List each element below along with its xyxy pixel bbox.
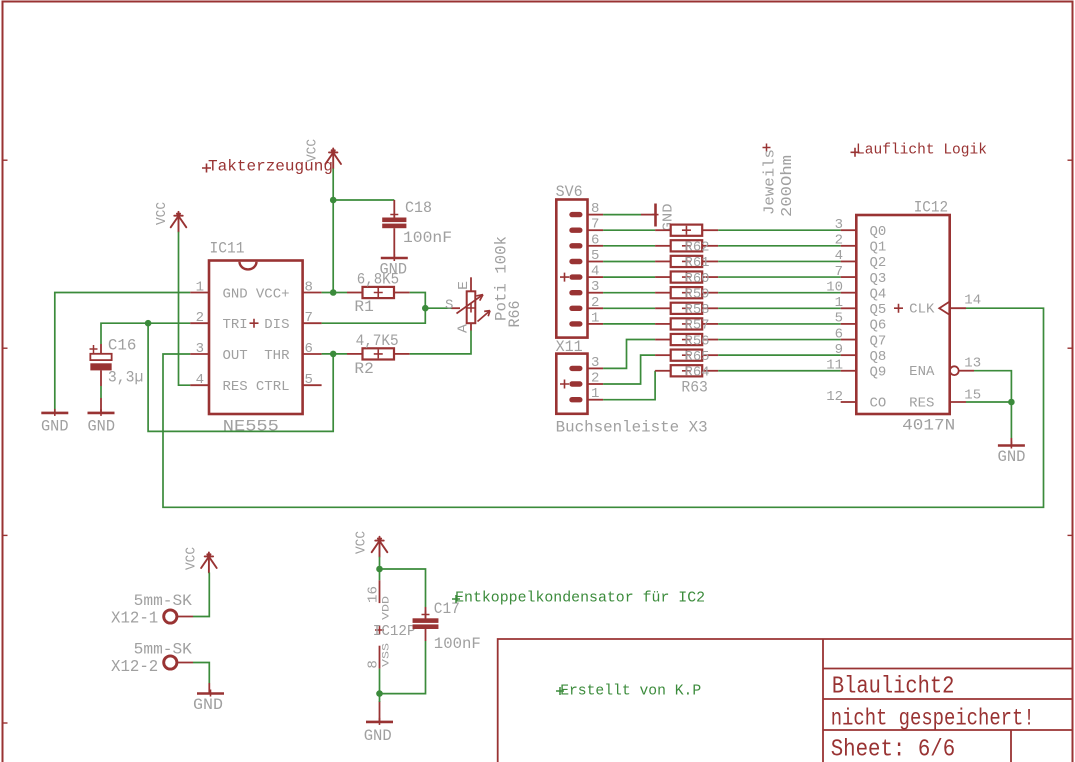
IC12 pin 10 Q4: [841, 292, 857, 294]
IC12 body: [856, 215, 949, 414]
label Jeweils 200Ohm: [763, 144, 797, 218]
IC12 pin 1 Q5: [841, 307, 857, 309]
svg-text:R58: R58: [685, 302, 710, 318]
IC12 pin 9 Q8: [841, 354, 857, 356]
SV6 pin 5: [569, 259, 582, 264]
svg-text:R60: R60: [685, 271, 710, 287]
wire SV6 pin 3 to resistor: [603, 292, 655, 294]
IC12 pin 4 Q2: [841, 260, 857, 262]
poti pin E: [470, 277, 472, 291]
svg-text:1: 1: [591, 310, 599, 326]
svg-text:Q5: Q5: [870, 302, 887, 318]
svg-text:R61: R61: [685, 255, 710, 271]
svg-text:TRI: TRI: [223, 317, 248, 333]
IC11 pin 8 VCC+: [303, 292, 322, 294]
wire ENA to RES node: [974, 371, 1011, 402]
svg-text:R56: R56: [685, 333, 710, 349]
wire X11 pin2 to resistor R65 row: [603, 355, 655, 384]
wire VCC to IC12P: [379, 557, 381, 581]
resistor R59 200 Ohm: [655, 286, 718, 302]
resistor R1 6,8K5: [347, 270, 410, 316]
svg-text:4: 4: [196, 372, 204, 388]
svg-text:THR: THR: [264, 348, 290, 364]
IC11 pin 1 GND: [190, 292, 209, 294]
wire resistor row to IC12 Q0: [718, 229, 841, 231]
svg-text:6: 6: [835, 326, 843, 342]
svg-text:IC12: IC12: [914, 199, 949, 217]
svg-text:8: 8: [305, 279, 313, 295]
svg-text:10: 10: [826, 279, 843, 295]
LED hole X12-1 5mm-SK: [111, 592, 193, 628]
poti pin A: [470, 323, 472, 330]
resistor R60 200 Ohm: [655, 271, 718, 287]
resistor R63 200 Ohm: [655, 225, 718, 236]
svg-text:2: 2: [835, 233, 843, 249]
svg-text:DIS: DIS: [264, 317, 289, 333]
ground symbol GND rotated at SV6 pin8: [641, 203, 677, 231]
svg-text:4017N: 4017N: [902, 417, 955, 435]
IC12P origin cross: [375, 626, 384, 635]
svg-text:VCC: VCC: [355, 531, 370, 554]
X11 pin 1: [569, 397, 582, 402]
LED hole X12-2 5mm-SK: [111, 641, 193, 677]
svg-text:Q9: Q9: [870, 365, 887, 381]
wire R2 to poti A: [410, 331, 471, 354]
svg-text:1: 1: [196, 279, 204, 295]
IC12 pin 6 Q7: [841, 339, 857, 341]
svg-text:GND: GND: [998, 448, 1026, 466]
wire SV6 pin 7 to resistor: [603, 229, 655, 231]
svg-text:14: 14: [964, 293, 981, 309]
IC12 pin 3 Q0: [841, 229, 857, 231]
svg-text:X11: X11: [556, 338, 583, 356]
SV6 pin 8: [569, 212, 582, 217]
wire X12-1 to VCC: [193, 573, 209, 617]
svg-text:16: 16: [367, 586, 382, 603]
note text Entkoppelkondensator: [452, 590, 705, 607]
svg-text:R59: R59: [685, 286, 710, 302]
wire IC12P VSS to GND: [379, 669, 381, 694]
junction at IC12P VDD: [376, 566, 383, 573]
svg-text:GND: GND: [88, 418, 116, 436]
svg-text:GND: GND: [41, 418, 69, 436]
resistor R65 200 Ohm: [655, 349, 718, 365]
IC11 pin 6 THR: [303, 353, 322, 355]
X11 pin 2: [569, 381, 582, 386]
svg-text:R66: R66: [506, 301, 524, 328]
svg-text:Lauflicht Logik: Lauflicht Logik: [856, 143, 987, 159]
VCC symbol at IC12P: [355, 531, 388, 557]
svg-text:VCC: VCC: [306, 139, 321, 162]
IC11 pin 2 TRI: [190, 322, 209, 324]
svg-text:1: 1: [835, 295, 843, 311]
svg-text:13: 13: [964, 356, 981, 372]
svg-text:Q4: Q4: [870, 286, 887, 302]
wire R1 to wiper node: [410, 293, 426, 309]
ground symbol GND at C16: [88, 409, 116, 436]
wire pin6 to R2: [322, 353, 347, 355]
svg-text:8: 8: [367, 660, 382, 669]
svg-text:Q8: Q8: [870, 349, 887, 365]
IC12 pin 12 CO: [841, 401, 857, 403]
svg-text:E: E: [457, 281, 472, 290]
IC11 origin cross: [250, 319, 259, 328]
svg-text:S: S: [445, 298, 453, 314]
svg-text:GND: GND: [193, 696, 223, 714]
svg-text:CTRL: CTRL: [256, 379, 290, 395]
connector X11 pin header: [556, 338, 604, 414]
SV6 pin 6: [569, 243, 582, 248]
svg-text:R63: R63: [681, 379, 708, 397]
wire resistor row to IC12 Q8: [718, 354, 841, 356]
svg-text:nicht gespeichert!: nicht gespeichert!: [831, 706, 1035, 732]
VCC symbol above IC11: [155, 202, 186, 232]
wire VCC down to IC11 pin8: [322, 169, 334, 293]
svg-text:NE555: NE555: [223, 418, 279, 436]
frame row tick marks: [2, 160, 1073, 723]
svg-text:3: 3: [591, 355, 599, 371]
svg-text:2: 2: [196, 310, 204, 326]
wire IC11 pin3 OUT to IC12 CLK: [163, 308, 1044, 507]
capacitor C16 3,3u electrolytic: [90, 336, 144, 413]
capacitor C18 100nF: [382, 199, 452, 258]
svg-text:3: 3: [196, 341, 204, 357]
svg-text:4,7K5: 4,7K5: [356, 332, 399, 350]
wire C17 loop: [380, 569, 426, 607]
svg-text:Q2: Q2: [870, 255, 887, 271]
ground symbol GND at IC12: [998, 442, 1026, 467]
junction at IC12P VSS: [376, 690, 383, 697]
poti wiper S: [452, 307, 461, 309]
svg-text:Buchsenleiste X3: Buchsenleiste X3: [556, 419, 708, 437]
potentiometer R66 Poti 100k: [445, 236, 524, 333]
wire wiper node to IC11 pin7 DIS: [322, 308, 426, 323]
X11 pin 3: [569, 366, 582, 371]
ground symbol GND at C18: [380, 254, 408, 279]
svg-text:100nF: 100nF: [434, 635, 481, 653]
svg-text:R57: R57: [685, 318, 710, 334]
svg-text:Sheet: 6/6: Sheet: 6/6: [831, 737, 956, 762]
svg-text:5mm-SK: 5mm-SK: [134, 592, 193, 610]
title text Takterzeugung: [202, 158, 333, 176]
svg-text:ENA: ENA: [909, 364, 935, 380]
svg-text:5mm-SK: 5mm-SK: [134, 641, 193, 659]
IC12 pin 11 Q9: [841, 370, 857, 372]
wire resistor row to IC12 Q2: [718, 260, 841, 262]
wire resistor row to IC12 Q7: [718, 339, 841, 341]
svg-text:2: 2: [591, 295, 599, 311]
wire X11 pin3 to resistor R56 row: [603, 340, 655, 369]
junction at pin8 R1 node: [330, 289, 337, 296]
wire resistor row to IC12 Q4: [718, 292, 841, 294]
SV6 pin 4: [569, 274, 582, 279]
SV6 pin 3: [569, 290, 582, 295]
note text Erstellt von K.P: [556, 684, 701, 700]
svg-text:5: 5: [305, 372, 313, 388]
svg-text:4: 4: [835, 248, 843, 264]
IC12 pin 2 Q1: [841, 245, 857, 247]
svg-text:6,8K5: 6,8K5: [357, 270, 399, 288]
svg-text:IC11: IC11: [210, 240, 245, 258]
wire resistor row to IC12 Q9: [718, 370, 841, 372]
title block frame: [498, 639, 1073, 762]
resistor R56 200 Ohm: [655, 333, 718, 349]
svg-text:GND: GND: [662, 203, 677, 231]
wire resistor row to IC12 Q6: [718, 323, 841, 325]
svg-text:Entkoppelkondensator für IC2: Entkoppelkondensator für IC2: [455, 590, 705, 607]
svg-text:CO: CO: [870, 396, 887, 412]
wire node to GND: [1010, 402, 1012, 438]
svg-text:R65: R65: [685, 349, 710, 365]
svg-text:Erstellt von K.P: Erstellt von K.P: [560, 684, 701, 700]
svg-text:15: 15: [964, 388, 981, 404]
wire wiper node to poti S: [425, 307, 451, 309]
svg-text:Q0: Q0: [870, 224, 887, 240]
svg-text:X12-1: X12-1: [111, 610, 158, 628]
IC12P pin 16 VDD: [379, 580, 381, 603]
wire resistor row to IC12 Q3: [718, 276, 841, 278]
wire VCC to IC11 pin4 RES: [179, 232, 191, 385]
wire pin8 node to R1: [333, 292, 347, 294]
wire X12-2 to GND: [193, 663, 209, 684]
svg-text:R2: R2: [354, 360, 373, 378]
wire TRI to THR link: [148, 323, 333, 431]
svg-text:200Ohm: 200Ohm: [780, 155, 796, 217]
ground symbol GND at pin1 net: [41, 409, 69, 436]
junction at C18 tap: [330, 197, 337, 204]
svg-text:Q3: Q3: [870, 271, 887, 287]
svg-text:12: 12: [826, 389, 843, 405]
svg-text:C18: C18: [405, 199, 432, 217]
wire resistor row to IC12 Q1: [718, 245, 841, 247]
IC12 pin 5 Q6: [841, 323, 857, 325]
svg-text:RES: RES: [223, 379, 248, 395]
IC11 pin 7 DIS: [303, 322, 322, 324]
svg-text:7: 7: [305, 310, 313, 326]
svg-text:7: 7: [591, 217, 599, 233]
svg-text:VCC: VCC: [155, 202, 170, 225]
wire SV6 pin 4 to resistor: [603, 276, 655, 278]
IC11 pin 4 RES: [190, 384, 209, 386]
junction at pin6 THR node: [330, 351, 337, 358]
resistor R57 200 Ohm: [655, 318, 718, 334]
svg-text:R62: R62: [685, 240, 710, 256]
svg-text:IC12P: IC12P: [373, 624, 416, 640]
svg-text:Q6: Q6: [870, 318, 887, 334]
connector SV6 pin header: [556, 183, 604, 338]
junction at wiper node: [422, 305, 429, 312]
IC12 pin 14 CLK: [894, 304, 903, 313]
svg-text:5: 5: [591, 248, 599, 264]
VCC symbol at clock node: [306, 139, 342, 169]
svg-text:6: 6: [305, 341, 313, 357]
svg-text:OUT: OUT: [223, 348, 248, 364]
svg-text:C16: C16: [108, 336, 136, 354]
power pins IC12P: [367, 580, 416, 668]
VCC symbol at X12-1: [185, 547, 217, 573]
wire SV6 pin 1 to resistor: [603, 323, 655, 325]
wire IC11 pin1 to GND: [55, 293, 190, 413]
svg-text:Q1: Q1: [870, 240, 887, 256]
wire RES to node: [966, 401, 1011, 403]
op-amp IC12 4017N counter: [826, 199, 981, 435]
svg-text:X12-2: X12-2: [111, 658, 158, 676]
svg-text:3: 3: [591, 279, 599, 295]
svg-text:GND: GND: [223, 286, 248, 302]
svg-text:7: 7: [835, 264, 843, 280]
resistor R58 200 Ohm: [655, 302, 718, 318]
svg-text:R1: R1: [354, 298, 373, 316]
op-amp IC11 NE555 timer: [190, 240, 321, 436]
resistor R61 200 Ohm: [655, 255, 718, 271]
svg-text:A: A: [456, 323, 471, 333]
capacitor C17 100nF: [413, 600, 481, 653]
svg-text:SV6: SV6: [556, 183, 583, 201]
svg-text:VCC+: VCC+: [256, 286, 290, 302]
wire C17 to VSS node: [380, 641, 426, 694]
wire to C18: [333, 199, 394, 201]
svg-text:Q7: Q7: [870, 333, 887, 349]
resistor R64 200 Ohm: [655, 365, 718, 381]
poti adjust arrow: [478, 311, 491, 322]
resistor R2 4,7K5: [347, 332, 410, 378]
ground symbol GND at IC12P: [364, 718, 393, 745]
svg-text:2: 2: [591, 371, 599, 387]
resistor R62 200 Ohm: [655, 240, 718, 256]
svg-text:VDD: VDD: [381, 596, 393, 620]
IC11 pin 5 CTRL: [303, 384, 322, 386]
svg-text:CLK: CLK: [909, 302, 935, 318]
svg-text:VCC: VCC: [185, 547, 200, 570]
IC11 pin 3 OUT: [190, 353, 209, 355]
SV6 pin 2: [569, 306, 582, 311]
wire SV6 pin 6 to resistor: [603, 245, 655, 247]
svg-text:100nF: 100nF: [403, 229, 452, 247]
wire X11 pin1 to resistor R64 row: [603, 371, 655, 400]
svg-text:9: 9: [835, 342, 843, 358]
junction at ENA RES node: [1008, 399, 1015, 406]
svg-text:4: 4: [591, 264, 599, 280]
IC12 pin 7 Q3: [841, 276, 857, 278]
IC12P pin 8 VSS: [379, 646, 381, 669]
junction at TRI node: [145, 320, 152, 327]
svg-text:11: 11: [826, 358, 843, 374]
svg-text:Jeweils: Jeweils: [763, 149, 779, 215]
title text Lauflicht Logik: [851, 143, 988, 159]
svg-text:3: 3: [835, 217, 843, 233]
svg-text:VSS: VSS: [381, 643, 393, 667]
svg-text:6: 6: [591, 232, 599, 248]
IC11 body: [209, 261, 303, 415]
SV6 pin 1: [569, 321, 582, 326]
svg-text:Blaulicht2: Blaulicht2: [832, 674, 955, 701]
ground symbol GND at X12-2: [193, 690, 224, 715]
wire SV6 pin 5 to resistor: [603, 261, 655, 263]
svg-text:RES: RES: [909, 396, 934, 412]
wire SV6 pin 2 to resistor: [603, 307, 655, 309]
svg-text:8: 8: [591, 201, 599, 217]
svg-text:5: 5: [835, 311, 843, 327]
SV6 pin 7: [569, 228, 582, 233]
svg-text:1: 1: [591, 386, 599, 402]
svg-text:3,3µ: 3,3µ: [108, 369, 143, 387]
wire IC11 pin2 TRI to C16: [101, 323, 190, 344]
svg-text:GND: GND: [364, 727, 392, 745]
wire resistor row to IC12 Q5: [718, 307, 841, 309]
wire SV6 pin8 to GND: [603, 214, 641, 216]
